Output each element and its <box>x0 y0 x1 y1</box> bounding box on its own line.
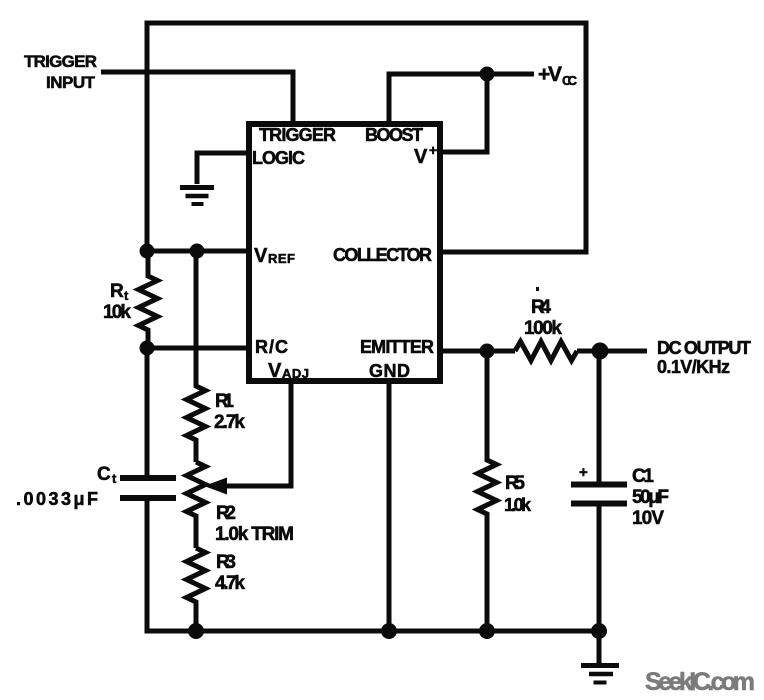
svg-text:R: R <box>110 281 124 302</box>
svg-text:R5: R5 <box>505 473 525 494</box>
resistor R5 with leads <box>478 351 497 631</box>
pin label R/C <box>255 337 288 357</box>
svg-text:TRIGGER: TRIGGER <box>24 52 97 71</box>
wire: LOGIC pin to ground <box>197 153 246 184</box>
pin label TRIGGER <box>259 125 336 145</box>
label R3 <box>215 552 245 594</box>
resistor Rt <box>139 251 158 348</box>
svg-text:1.0k: 1.0k <box>504 495 532 515</box>
wire: EMITTER pin to R4 <box>443 349 515 354</box>
label DC OUTPUT <box>657 338 751 377</box>
svg-text:t: t <box>124 288 129 303</box>
svg-text:10V: 10V <box>632 508 664 529</box>
svg-text:4.7k: 4.7k <box>215 573 245 594</box>
wire: +Vcc junction down to V+ pin <box>443 72 487 152</box>
wire: output node to ground symbol <box>597 631 602 663</box>
junction dot emitter node <box>480 344 495 359</box>
pin label BOOST <box>365 125 423 145</box>
ground output <box>581 666 619 683</box>
svg-text:LOGIC: LOGIC <box>252 148 305 168</box>
potentiometer R2 <box>187 462 206 548</box>
wire: VREF pin wire <box>147 249 246 254</box>
wire: GND pin to bottom rail <box>387 381 392 631</box>
resistor R4 <box>515 342 577 361</box>
wiper arrow of R2 to VADJ pin <box>204 381 291 495</box>
junction dot R/C left rail <box>140 341 155 356</box>
svg-text:BOOST: BOOST <box>365 125 423 145</box>
pin label VREF <box>254 245 295 267</box>
wire: R4 to DC OUTPUT <box>577 349 647 354</box>
label +Vcc <box>538 63 578 88</box>
svg-text:C: C <box>97 464 111 485</box>
svg-text:.0033μF: .0033μF <box>16 489 98 509</box>
svg-text:0.1V/KHz: 0.1V/KHz <box>657 357 730 377</box>
junction dot VREF left rail <box>140 244 155 259</box>
resistor R3 <box>187 548 206 631</box>
pin label GND <box>369 361 410 381</box>
wire: TRIGGER INPUT to TRIGGER pin <box>101 72 293 124</box>
svg-text:+: + <box>579 464 588 481</box>
svg-text:DC OUTPUT: DC OUTPUT <box>657 338 751 358</box>
svg-text:SeekIC.com: SeekIC.com <box>645 668 755 696</box>
svg-text:R1: R1 <box>215 391 234 412</box>
junction dot R5 bottom rail <box>479 623 495 639</box>
wire: left rail from top loop down to Ct top plate <box>145 23 150 478</box>
svg-text:GND: GND <box>369 361 410 381</box>
svg-text:R2: R2 <box>216 503 236 524</box>
wire: top rail, right rail down to COLLECTOR pin <box>145 23 587 252</box>
svg-text:C1: C1 <box>632 466 654 487</box>
svg-text:R4: R4 <box>531 297 551 318</box>
label Ct <box>16 464 117 509</box>
svg-text:R3: R3 <box>216 552 236 573</box>
wire: BOOST pin up to +Vcc line <box>389 74 534 124</box>
label C1 polarity plus <box>579 464 588 481</box>
junction dot C1 bottom rail <box>591 623 607 639</box>
svg-text:2.7k: 2.7k <box>214 412 245 433</box>
resistor R1 with lead from VREF <box>187 251 206 462</box>
watermark SeekIC.com <box>645 668 755 696</box>
svg-text:t: t <box>112 471 117 486</box>
ground logic <box>180 188 214 205</box>
label Rt <box>103 281 131 323</box>
junction dot output node <box>592 343 609 360</box>
wire: bottom ground rail <box>145 629 601 634</box>
svg-text:COLLECTOR: COLLECTOR <box>333 245 432 265</box>
svg-text:100k: 100k <box>524 318 562 339</box>
svg-text:EMITTER: EMITTER <box>360 337 434 357</box>
wire: Ct bottom plate to bottom rail <box>145 498 150 631</box>
junction dot +Vcc node <box>480 67 495 82</box>
svg-text:1.0k TRIM: 1.0k TRIM <box>215 524 294 545</box>
junction dot R3 bottom rail <box>188 623 204 639</box>
svg-text:+: + <box>429 142 437 158</box>
svg-text:V: V <box>268 360 282 382</box>
svg-text:REF: REF <box>268 251 295 266</box>
capacitor Ct <box>120 478 176 498</box>
junction dot VREF R1 branch <box>190 244 205 259</box>
svg-text:50μF: 50μF <box>632 487 669 508</box>
label R5 <box>504 473 532 515</box>
label R4 <box>524 287 562 339</box>
junction dot GND bottom rail <box>381 623 397 639</box>
svg-text:V: V <box>254 245 268 267</box>
svg-text:10k: 10k <box>103 302 131 323</box>
pin label V+ <box>414 142 437 168</box>
IC U1 timer block <box>249 124 440 381</box>
label R1 <box>214 391 245 433</box>
capacitor C1 <box>571 351 627 631</box>
pin label VADJ <box>268 360 309 382</box>
svg-text:INPUT: INPUT <box>46 73 96 92</box>
pin label EMITTER <box>360 337 434 357</box>
svg-text:TRIGGER: TRIGGER <box>259 125 336 145</box>
svg-text:CC: CC <box>562 73 578 88</box>
wire: R/C pin wire <box>147 346 246 351</box>
svg-text:ADJ: ADJ <box>282 366 309 381</box>
pin label LOGIC <box>252 148 305 168</box>
pin label COLLECTOR <box>333 245 432 265</box>
label R2 <box>215 503 294 545</box>
svg-text:R/C: R/C <box>255 337 288 357</box>
svg-text:V: V <box>414 146 428 168</box>
svg-text:+V: +V <box>538 63 562 86</box>
label C1 <box>632 466 669 529</box>
label TRIGGER INPUT <box>24 52 97 92</box>
